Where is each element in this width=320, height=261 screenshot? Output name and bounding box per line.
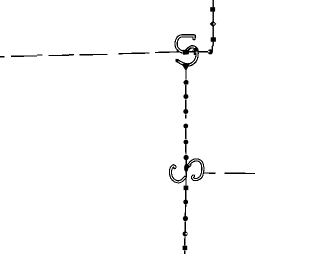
symbol: upper script-S curl (outlined), lower bowl and tail: [178, 47, 197, 65]
dot: donut post on connector: [208, 49, 213, 54]
symbol: upper script-S curl (outlined), top bowl: [176, 36, 194, 52]
wire: top-right vertical dotted line with corner: [211, 0, 214, 52]
dot: round post y=142: [184, 140, 189, 145]
wire: right dashed line from lower symbol: [202, 172, 255, 175]
dot: round post y=111.5: [183, 109, 188, 114]
dot: dense crossing hatch at lower symbol start: [187, 163, 192, 168]
wire: vertical dotted line below lower symbol: [185, 172, 187, 254]
dot: square post on top vertical, y=39.5: [211, 37, 216, 41]
dot: square post y=248: [183, 246, 188, 250]
symbol: lower right loop curl (outlined): [188, 160, 203, 180]
dot: round post y=96.5: [183, 94, 188, 99]
dot: square post on top vertical, y=9.5: [210, 7, 215, 11]
dot: dense crossing blob right of S: [187, 47, 199, 56]
wire: horizontal connector from S to corner: [186, 51, 213, 53]
dot: donut post on top vertical, y=24: [210, 21, 217, 28]
node: elongated junction blob at lower symbol center: [184, 164, 188, 172]
dot: donut post y=234: [183, 231, 188, 236]
symbol: lower left hook curl (outlined): [170, 166, 184, 182]
dot: filled triangle at base of S: [182, 63, 191, 71]
dot: square post y=188: [184, 186, 189, 191]
dot: round post y=126: [183, 124, 188, 129]
dot: round post y=157.5: [184, 155, 189, 160]
wire: vertical dotted line between symbols: [185, 68, 187, 165]
dot: small square end of S tail: [176, 59, 179, 62]
dot: round post y=218: [183, 216, 188, 221]
wire: left dashed survey line: [0, 52, 184, 57]
node: big junction dot at S center: [183, 50, 189, 55]
dot: round post y=202: [183, 200, 188, 205]
dot: round post y=82: [183, 79, 188, 85]
